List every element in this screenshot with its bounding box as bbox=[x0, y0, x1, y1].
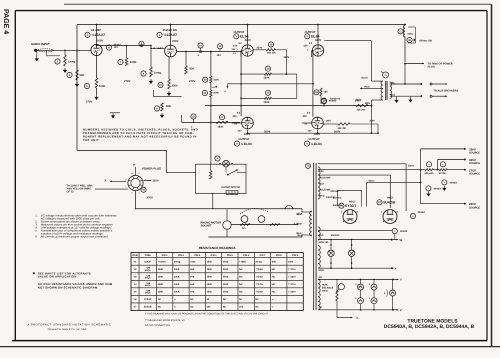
svg-text:1500: 1500 bbox=[190, 260, 196, 263]
svg-text:PHONO MOTOR: PHONO MOTOR bbox=[222, 186, 241, 189]
svg-text:NC NO CONNECTION: NC NO CONNECTION bbox=[145, 324, 170, 327]
svg-text:40mfd: 40mfd bbox=[418, 211, 426, 214]
svg-text:YEL: YEL bbox=[320, 170, 325, 173]
svg-text:1500: 1500 bbox=[223, 276, 229, 279]
svg-text:BLUE-WH: BLUE-WH bbox=[320, 189, 331, 192]
svg-text:1500: 1500 bbox=[223, 283, 229, 286]
svg-text:BRN: BRN bbox=[365, 102, 370, 105]
svg-text:370V: 370V bbox=[147, 197, 153, 200]
svg-text:15V: 15V bbox=[304, 45, 309, 48]
svg-text:400Ω: 400Ω bbox=[322, 290, 328, 293]
svg-text:NC: NC bbox=[272, 283, 276, 286]
svg-text:BLUE-WH: BLUE-WH bbox=[320, 176, 331, 179]
svg-text:VALUE OR APPLICATION: VALUE OR APPLICATION bbox=[38, 275, 77, 279]
svg-text:V: V bbox=[306, 143, 308, 146]
svg-text:GRN-YEL: GRN-YEL bbox=[319, 241, 330, 244]
svg-text:DC5940A, B, DC5942A, B, DC5944: DC5940A, B, DC5942A, B, DC5944A, B bbox=[384, 324, 475, 330]
svg-text:NC: NC bbox=[239, 283, 243, 286]
svg-text:5U4GB: 5U4GB bbox=[144, 306, 152, 309]
svg-text:††180K: ††180K bbox=[158, 260, 166, 263]
svg-text:4: 4 bbox=[145, 178, 146, 181]
svg-text:10V: 10V bbox=[308, 130, 313, 133]
svg-text:OR: OR bbox=[319, 276, 323, 279]
svg-text:OF T2: OF T2 bbox=[67, 191, 75, 194]
svg-text:PIN 5: PIN 5 bbox=[227, 254, 233, 257]
svg-text:NC: NC bbox=[158, 298, 162, 301]
svg-text:1meg: 1meg bbox=[68, 61, 75, 64]
svg-text:NC: NC bbox=[256, 306, 260, 309]
svg-text:1500: 1500 bbox=[223, 291, 229, 294]
svg-text:PIN 6: PIN 6 bbox=[243, 254, 249, 257]
svg-text:††160+: ††160+ bbox=[256, 291, 264, 294]
svg-text:560: 560 bbox=[80, 74, 85, 77]
svg-text:15V: 15V bbox=[232, 48, 236, 51]
svg-text:130K: 130K bbox=[174, 268, 180, 271]
svg-text:6BQ5: 6BQ5 bbox=[145, 276, 151, 279]
svg-text:6BQ5: 6BQ5 bbox=[145, 292, 151, 295]
svg-text:SOURCE: SOURCE bbox=[469, 152, 480, 155]
svg-text:50mv: 50mv bbox=[408, 165, 415, 168]
svg-text:16K 2W: 16K 2W bbox=[357, 109, 366, 112]
svg-text:5: 5 bbox=[132, 191, 133, 194]
svg-text:PIN 4: PIN 4 bbox=[211, 254, 217, 257]
svg-text:180K: 180K bbox=[264, 77, 270, 80]
svg-text:BLK: BLK bbox=[391, 93, 396, 96]
svg-text:84K: 84K bbox=[272, 260, 277, 263]
svg-text:TUBE: TUBE bbox=[145, 254, 152, 257]
svg-text:©Howard W. Sams & Co., Inc. 19: ©Howard W. Sams & Co., Inc. 1959 bbox=[48, 328, 87, 331]
svg-text:11: 11 bbox=[131, 172, 133, 175]
svg-text:2meg: 2meg bbox=[256, 260, 263, 263]
svg-text:BLK: BLK bbox=[297, 213, 302, 216]
svg-text:130K: 130K bbox=[174, 283, 180, 286]
svg-text:TO AUX SPEAKERS: TO AUX SPEAKERS bbox=[434, 89, 459, 92]
svg-text:270V: 270V bbox=[124, 80, 130, 83]
svg-text:V: V bbox=[306, 35, 308, 38]
svg-text:6BQ5: 6BQ5 bbox=[145, 269, 151, 272]
svg-text:240VAC: 240VAC bbox=[331, 190, 340, 193]
svg-text:600Ω: 600Ω bbox=[408, 33, 414, 36]
svg-text:100K: 100K bbox=[213, 78, 219, 81]
svg-text:1500: 1500 bbox=[223, 268, 229, 271]
svg-text:OUTPUT: OUTPUT bbox=[239, 138, 250, 141]
svg-text:SOURCE: SOURCE bbox=[469, 206, 480, 209]
svg-text:HUM: HUM bbox=[322, 284, 327, 287]
svg-text:5Y3GT: 5Y3GT bbox=[144, 298, 152, 301]
svg-text:M: M bbox=[142, 189, 144, 192]
svg-text:NC: NC bbox=[223, 306, 227, 309]
svg-text:6BQ5: 6BQ5 bbox=[145, 284, 151, 287]
svg-text:THE UNIT.: THE UNIT. bbox=[83, 139, 100, 142]
svg-text:130K: 130K bbox=[158, 291, 164, 294]
svg-text:16K 2W: 16K 2W bbox=[267, 51, 276, 54]
svg-text:100V: 100V bbox=[326, 119, 332, 122]
svg-text:††160+: ††160+ bbox=[288, 291, 296, 294]
svg-text:RECT: RECT bbox=[387, 197, 394, 200]
svg-text:POWER PLUG: POWER PLUG bbox=[142, 167, 161, 171]
svg-text:15V: 15V bbox=[233, 45, 238, 48]
svg-text:PIN 7: PIN 7 bbox=[260, 254, 266, 257]
svg-text:PIN 3: PIN 3 bbox=[194, 254, 200, 257]
svg-text:270V: 270V bbox=[189, 80, 195, 83]
svg-text:PIN 1: PIN 1 bbox=[162, 254, 168, 257]
svg-text:PAGE 4: PAGE 4 bbox=[2, 9, 9, 34]
svg-text:††160+: ††160+ bbox=[288, 276, 296, 279]
svg-text:NC: NC bbox=[239, 276, 243, 279]
svg-text:180K: 180K bbox=[264, 101, 270, 104]
svg-text:600mv 1W: 600mv 1W bbox=[420, 40, 433, 43]
svg-text:9: 9 bbox=[125, 178, 126, 181]
svg-text:40mfd: 40mfd bbox=[450, 182, 458, 185]
svg-text:NO: NO bbox=[242, 227, 246, 230]
svg-text:NC: NC bbox=[223, 298, 227, 301]
svg-text:5.: 5. bbox=[35, 229, 38, 233]
svg-text:130K: 130K bbox=[174, 276, 180, 279]
svg-text:RED: RED bbox=[320, 195, 325, 198]
svg-text:10V: 10V bbox=[114, 46, 119, 49]
svg-text:††160+: ††160+ bbox=[256, 276, 264, 279]
svg-text:600+600: 600+600 bbox=[425, 172, 435, 175]
svg-text:130K: 130K bbox=[158, 268, 164, 271]
svg-text:NC: NC bbox=[272, 268, 276, 271]
svg-text:1500: 1500 bbox=[288, 260, 294, 263]
svg-text:220V: 220V bbox=[257, 46, 263, 49]
svg-text:250VAC: 250VAC bbox=[331, 234, 340, 237]
svg-text:X: X bbox=[105, 180, 107, 183]
svg-text:130K: 130K bbox=[158, 283, 164, 286]
svg-text:100V: 100V bbox=[97, 40, 103, 43]
svg-text:C: C bbox=[400, 30, 402, 33]
svg-text:30V: 30V bbox=[303, 115, 308, 118]
svg-text:PIN 8: PIN 8 bbox=[276, 254, 282, 257]
svg-text:1500: 1500 bbox=[207, 260, 213, 263]
svg-text:V: V bbox=[235, 35, 237, 38]
svg-text:130K: 130K bbox=[174, 291, 180, 294]
svg-text:RESISTANCE READINGS: RESISTANCE READINGS bbox=[199, 246, 236, 250]
svg-text:100K: 100K bbox=[213, 92, 219, 95]
svg-text:1500: 1500 bbox=[207, 268, 213, 271]
svg-text:1meg: 1meg bbox=[154, 72, 161, 75]
svg-text:220V: 220V bbox=[172, 40, 178, 43]
svg-text:½ EL84: ½ EL84 bbox=[311, 142, 322, 146]
svg-text:10V: 10V bbox=[238, 130, 243, 133]
svg-text:2meg: 2meg bbox=[174, 260, 181, 263]
svg-text:6.: 6. bbox=[35, 235, 38, 239]
svg-text:270V: 270V bbox=[86, 101, 92, 104]
svg-text:PHASE INV: PHASE INV bbox=[163, 29, 177, 32]
svg-text:†† MEASURED FROM PIN 8 OF V2: †† MEASURED FROM PIN 8 OF V2 bbox=[145, 319, 185, 322]
svg-text:V: V bbox=[236, 143, 238, 146]
svg-text:12AX7: 12AX7 bbox=[144, 260, 152, 263]
svg-text:SOURCE: SOURCE bbox=[469, 173, 480, 176]
svg-text:PLUG: PLUG bbox=[428, 65, 435, 68]
svg-text:PONENT REPLACEMENT AND MAY NOT: PONENT REPLACEMENT AND MAY NOT NECESSARI… bbox=[83, 136, 197, 139]
svg-text:1500: 1500 bbox=[223, 260, 229, 263]
svg-text:AUDIO INPUT: AUDIO INPUT bbox=[31, 42, 50, 46]
svg-text:1.: 1. bbox=[35, 214, 38, 218]
svg-text:100K: 100K bbox=[130, 61, 136, 64]
svg-text:PIN 2: PIN 2 bbox=[178, 254, 184, 257]
svg-text:NC: NC bbox=[256, 298, 260, 301]
svg-text:††170+: ††170+ bbox=[288, 283, 296, 286]
svg-text:30V: 30V bbox=[233, 115, 238, 118]
svg-text:NC: NC bbox=[239, 268, 243, 271]
svg-text:110V: 110V bbox=[153, 179, 159, 182]
svg-text:100K: 100K bbox=[99, 85, 105, 88]
svg-text:† THIS READING WILL VARY DEP: † THIS READING WILL VARY DEPENDING UPON … bbox=[145, 313, 269, 316]
svg-text:50mv: 50mv bbox=[369, 180, 376, 183]
svg-text:82K: 82K bbox=[190, 68, 195, 71]
svg-text:PIN 9: PIN 9 bbox=[292, 254, 298, 257]
svg-text:82K: 82K bbox=[166, 105, 171, 108]
svg-text:NC: NC bbox=[190, 306, 194, 309]
svg-text:L-30: L-30 bbox=[297, 223, 302, 226]
svg-text:OR: OR bbox=[319, 306, 323, 309]
svg-text:180K: 180K bbox=[218, 126, 224, 129]
svg-text:All controls at minimum, prope: All controls at minimum, proper output l… bbox=[41, 235, 109, 239]
svg-text:80 2W: 80 2W bbox=[439, 172, 446, 175]
svg-text:40mfd: 40mfd bbox=[400, 230, 408, 233]
svg-text:340V: 340V bbox=[356, 99, 362, 102]
svg-text:††170+: ††170+ bbox=[288, 268, 296, 271]
svg-text:1500: 1500 bbox=[207, 291, 213, 294]
svg-text:††82K: ††82K bbox=[239, 260, 246, 263]
svg-text:RED: RED bbox=[319, 234, 324, 237]
svg-text:ITEM: ITEM bbox=[132, 254, 138, 257]
svg-text:180: 180 bbox=[217, 54, 222, 57]
svg-text:5U4GB: 5U4GB bbox=[383, 200, 395, 204]
svg-text:SOCKET: SOCKET bbox=[201, 224, 213, 227]
svg-text:BLUE: BLUE bbox=[362, 77, 369, 80]
svg-text:NC: NC bbox=[190, 298, 194, 301]
svg-text:NOT SHOWN ON SCHEMATIC DIAGRAM: NOT SHOWN ON SCHEMATIC DIAGRAM bbox=[38, 286, 98, 290]
svg-text:130K: 130K bbox=[158, 276, 164, 279]
svg-text:240V: 240V bbox=[284, 56, 290, 59]
svg-text:GRN: GRN bbox=[319, 269, 324, 272]
svg-text:160: 160 bbox=[324, 91, 329, 94]
svg-text:BLK: BLK bbox=[297, 232, 302, 235]
svg-text:NC: NC bbox=[272, 291, 276, 294]
svg-text:BALANCE: BALANCE bbox=[322, 287, 334, 290]
svg-text:Z: Z bbox=[400, 308, 402, 312]
svg-text:5Y3GT: 5Y3GT bbox=[345, 204, 357, 208]
svg-text:40mfd 6V: 40mfd 6V bbox=[330, 98, 341, 101]
svg-text:Y: Y bbox=[400, 278, 402, 282]
svg-text:V: V bbox=[356, 316, 358, 320]
svg-text:NC: NC bbox=[239, 291, 243, 294]
svg-text:BLK: BLK bbox=[320, 182, 325, 185]
svg-text:7: 7 bbox=[125, 185, 126, 188]
svg-text:3: 3 bbox=[139, 191, 140, 194]
svg-text:AF AMP: AF AMP bbox=[91, 29, 101, 32]
svg-text:1500: 1500 bbox=[207, 283, 213, 286]
svg-text:1500: 1500 bbox=[207, 276, 213, 279]
svg-text:NC: NC bbox=[272, 276, 276, 279]
svg-text:½12AX7: ½12AX7 bbox=[92, 33, 106, 37]
svg-text:SOURCE: SOURCE bbox=[469, 162, 480, 165]
svg-text:½ EL84: ½ EL84 bbox=[241, 142, 252, 146]
svg-text:200V: 200V bbox=[370, 119, 376, 122]
svg-text:W: W bbox=[400, 238, 403, 242]
svg-text:OUTPUT: OUTPUT bbox=[309, 138, 320, 141]
svg-text:2: 2 bbox=[139, 172, 140, 175]
svg-text:90K 2W: 90K 2W bbox=[338, 127, 347, 130]
svg-text:††170+: ††170+ bbox=[256, 283, 264, 286]
svg-text:NC: NC bbox=[158, 306, 162, 309]
svg-text:40mfd: 40mfd bbox=[434, 188, 442, 191]
svg-text:P: P bbox=[217, 157, 219, 160]
svg-text:2200: 2200 bbox=[172, 85, 178, 88]
svg-text:A PHOTOFACT STANDARD NOTATION: A PHOTOFACT STANDARD NOTATION SCHEMATIC bbox=[28, 324, 112, 327]
svg-text:††180+: ††180+ bbox=[256, 268, 264, 271]
svg-text:X: X bbox=[395, 266, 397, 270]
